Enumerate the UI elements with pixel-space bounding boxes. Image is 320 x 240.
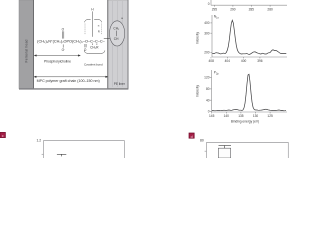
diagram bottom border bbox=[19, 88, 128, 90]
svg-text:80: 80 bbox=[200, 139, 204, 143]
PE liner column bbox=[108, 0, 129, 89]
svg-text:290: 290 bbox=[230, 8, 236, 12]
svg-text:PE liner: PE liner bbox=[114, 82, 126, 86]
svg-text:1.2: 1.2 bbox=[36, 139, 41, 143]
MPC graft chain double arrow + caption bbox=[34, 76, 108, 78]
svg-text:0: 0 bbox=[208, 2, 210, 6]
phosphorylcholine double arrow bbox=[34, 55, 80, 57]
phosphate =O above P bbox=[63, 31, 64, 38]
dashed repeat-unit side lines bbox=[85, 24, 101, 35]
covalent bond brace + label bbox=[84, 51, 105, 54]
svg-text:280: 280 bbox=[267, 8, 273, 12]
svg-text:135: 135 bbox=[238, 114, 244, 118]
svg-text:300: 300 bbox=[204, 31, 210, 35]
svg-text:Binding energy (eV): Binding energy (eV) bbox=[231, 120, 259, 124]
svg-text:CH₂R: CH₂R bbox=[90, 45, 99, 49]
svg-text:285: 285 bbox=[249, 8, 255, 12]
repeat-unit brace over C-C-C bbox=[85, 19, 102, 22]
svg-text:d: d bbox=[191, 135, 193, 139]
svg-text:Femoral head: Femoral head bbox=[24, 39, 28, 62]
svg-text:40: 40 bbox=[206, 98, 210, 102]
svg-text:Intensity: Intensity bbox=[195, 32, 199, 44]
panel c bbox=[0, 132, 5, 138]
ester C=O below first backbone C bbox=[85, 44, 86, 47]
C1s cut-off axis bbox=[211, 0, 287, 7]
svg-text:125: 125 bbox=[267, 114, 273, 118]
svg-text:200: 200 bbox=[204, 50, 210, 54]
svg-text:Covalent bond: Covalent bond bbox=[84, 62, 103, 66]
svg-text:Intensity: Intensity bbox=[195, 85, 199, 97]
svg-text:CH: CH bbox=[114, 37, 119, 41]
svg-text:295: 295 bbox=[212, 8, 218, 12]
svg-text:MPC polymer graft chain (100–1: MPC polymer graft chain (100–150 nm) bbox=[37, 79, 100, 83]
svg-text:404: 404 bbox=[225, 59, 231, 63]
svg-text:(CH₃)₃N+(CH₂)₂OPO(CH₂)₂–O–C–C–: (CH₃)₃N+(CH₂)₂OPO(CH₂)₂–O–C–C–C– bbox=[37, 40, 105, 44]
svg-text:80: 80 bbox=[206, 87, 210, 91]
femoral head bar bbox=[19, 0, 34, 89]
svg-text:c: c bbox=[2, 134, 4, 138]
svg-text:396: 396 bbox=[257, 59, 263, 63]
svg-text:140: 140 bbox=[224, 114, 230, 118]
svg-text:400: 400 bbox=[241, 59, 247, 63]
svg-text:Phosphorylcholine: Phosphorylcholine bbox=[44, 59, 71, 63]
svg-text:400: 400 bbox=[204, 21, 210, 25]
bond into PE ellipse bbox=[104, 37, 114, 39]
phosphate O- below P bbox=[62, 44, 64, 47]
PE surface ellipse with CH2 / CH bbox=[110, 16, 125, 46]
svg-text:120: 120 bbox=[204, 76, 210, 80]
svg-text:408: 408 bbox=[209, 59, 215, 63]
panel d bbox=[189, 133, 194, 139]
svg-text:R: R bbox=[98, 30, 100, 34]
svg-text:145: 145 bbox=[209, 114, 215, 118]
CH3 below middle C bbox=[91, 43, 93, 45]
svg-text:130: 130 bbox=[253, 114, 259, 118]
svg-text:CH₂: CH₂ bbox=[113, 26, 120, 30]
